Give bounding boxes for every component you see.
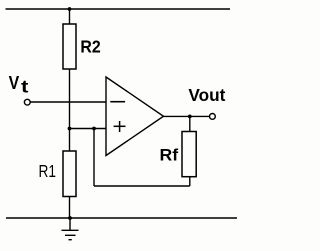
wire: R2 bottom down through Vt crossing to R1 top bbox=[69, 69, 71, 151]
resistor R2 bbox=[63, 24, 76, 69]
wire: feedback vertical segment bbox=[93, 129, 95, 187]
junction: output / Rf node bbox=[188, 115, 192, 119]
svg-text:t: t bbox=[21, 77, 29, 97]
op-amp U1 bbox=[106, 77, 164, 156]
svg-text:Vout: Vout bbox=[188, 85, 225, 105]
wire: Vt terminal to op-amp inverting input bbox=[30, 101, 106, 103]
wire: R1 bottom to ground rail bbox=[69, 197, 71, 219]
terminal: Vout output bbox=[210, 114, 216, 120]
wire: op-amp output to Vout terminal bbox=[164, 115, 210, 117]
wire: feedback up to Rf bottom bbox=[189, 177, 191, 186]
wire: node A to op-amp non-inverting input bbox=[70, 128, 107, 130]
junction: top rail / R2 node bbox=[68, 7, 72, 11]
pin label: non-inverting input plus sign bbox=[114, 121, 126, 132]
svg-text:R1: R1 bbox=[39, 161, 57, 181]
resistor R1 bbox=[63, 151, 76, 197]
junction: node A (R1/R2 divider) bbox=[68, 127, 72, 131]
wire: feedback horizontal segment bbox=[94, 185, 190, 187]
wire: top supply rail bbox=[6, 8, 231, 10]
junction: bottom rail / ground node bbox=[68, 216, 72, 220]
ground symbol bbox=[62, 218, 79, 240]
wire: top rail down to R2 bbox=[69, 9, 71, 24]
svg-text:R2: R2 bbox=[80, 36, 101, 56]
svg-text:V: V bbox=[9, 73, 20, 93]
resistor Rf bbox=[182, 132, 196, 177]
wire: bottom ground rail bbox=[6, 217, 237, 219]
pin label: inverting input minus sign bbox=[110, 101, 125, 103]
wire: output node down to Rf top bbox=[189, 116, 191, 131]
terminal: Vt input bbox=[24, 99, 30, 105]
svg-text:Rf: Rf bbox=[160, 146, 179, 164]
junction: feedback tap on + input wire bbox=[92, 127, 96, 131]
